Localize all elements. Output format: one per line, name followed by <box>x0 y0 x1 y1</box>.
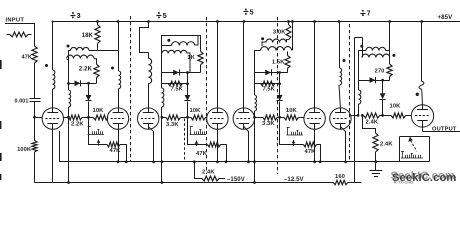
resistor 2.4K coupling <box>362 113 379 118</box>
label 2.4K coupling <box>366 120 379 126</box>
node chain stage1 left <box>67 116 70 119</box>
svg-text:0.001: 0.001 <box>15 98 29 104</box>
phasing dot T2 <box>167 39 170 42</box>
wire CR5 to chain <box>187 102 189 118</box>
node chain stage2 left <box>161 116 164 119</box>
diode CR2 vertical <box>85 95 91 101</box>
wire 7.5K row stage2 <box>162 83 188 85</box>
phasing dot pigtail <box>416 93 419 96</box>
resistor 10K stage1 <box>89 115 109 120</box>
node bus V4 plate tap <box>216 20 219 23</box>
label +85V supply <box>438 14 454 21</box>
resistor 10K stage2 <box>188 115 208 120</box>
wire CR7 to chain <box>279 102 281 118</box>
wire T2 right vertical <box>200 35 202 51</box>
wire 2.4K to -150V terminal <box>219 178 225 180</box>
diode CR3 <box>173 69 179 75</box>
resistor 2.4K shunt <box>373 133 378 152</box>
svg-text:18K: 18K <box>82 33 94 39</box>
wire 2.4K shunt to rail <box>375 152 377 162</box>
svg-text:100K: 100K <box>17 147 31 153</box>
resistor 47K stage1 leak <box>107 142 120 147</box>
inductor T3 secondary <box>255 47 293 51</box>
wire diode row stage1 <box>69 83 97 85</box>
node stage1 left bottom bus <box>67 181 70 184</box>
label 3.3K stage2 <box>166 122 179 128</box>
edge artifact 2 <box>0 121 1 129</box>
wire 1.5K to diode row stage3 <box>287 68 289 72</box>
wire V4 cathode to rail <box>217 129 219 162</box>
wire bus corner to V1 plate coil <box>52 22 54 71</box>
svg-text:270: 270 <box>375 68 385 74</box>
wire 7.5K row stage3 <box>255 83 280 85</box>
wire diode row stage2 <box>162 72 201 74</box>
inductor pigtail V8 plate <box>419 81 424 89</box>
label divide-by-5 second <box>243 7 253 16</box>
node 47K rail stage3 <box>319 160 322 163</box>
wire V6 cathode to rail <box>314 129 316 162</box>
tube V7 triode <box>330 108 351 129</box>
label 160 <box>335 174 345 180</box>
inductor L2 plate choke V2 <box>119 71 121 89</box>
node rail -150V tap <box>193 160 196 163</box>
node 2.4K rail <box>375 160 378 163</box>
node 47K rail stage2 <box>225 160 228 163</box>
wire L5 to V7 plate <box>339 85 340 108</box>
wire T4 outer left vertical to bus bottom <box>354 38 356 183</box>
resistor 270 <box>387 64 392 77</box>
wire T2 top line <box>162 35 201 37</box>
resistor 47K stage3 leak <box>304 142 317 147</box>
resistor 100K grid leak <box>32 141 37 153</box>
wire 270 to diode row <box>389 77 391 81</box>
wire V5 cathode to rail <box>244 127 249 162</box>
label 2.4K -150V <box>202 170 215 176</box>
label 10K stage2 <box>190 108 202 114</box>
diode CR7 vertical <box>277 95 283 101</box>
label 47K stage3 <box>305 149 317 155</box>
resistor 3.3K coupling stage2 <box>162 115 188 120</box>
wire diode row node down <box>88 83 90 95</box>
inductor L5 plate choke V7 <box>340 68 342 85</box>
node bus T3 tap <box>291 20 294 23</box>
inductor L1 plate choke V1 <box>53 70 55 89</box>
svg-text:3.0K: 3.0K <box>273 30 286 36</box>
phasing dot L2 <box>111 67 114 70</box>
wire diode row stage3 <box>255 72 288 74</box>
inductor L4 stage3 to chain <box>255 95 257 117</box>
resistor 7.5K stage3 <box>261 81 275 86</box>
label 2.2K coupling <box>71 121 84 127</box>
watermark SeekIC.com echo <box>391 170 455 182</box>
wire L2 to V2 plate <box>118 89 120 108</box>
label 7.5K stage3 <box>263 87 275 93</box>
wire stage3 left to rail and bus <box>254 117 256 182</box>
node bus V2 plate tap <box>117 20 120 23</box>
wire bus to V5 plate <box>243 22 245 108</box>
wire 100K to bottom bus <box>34 152 36 183</box>
label 7.5K stage2 <box>171 87 183 93</box>
wire stage2 left to rail and bus <box>161 117 163 182</box>
node bus V8 plate tap <box>420 20 423 23</box>
resistor 2.4K -150V <box>202 176 219 181</box>
tube V3 triode <box>138 108 159 129</box>
svg-text:1.5K: 1.5K <box>272 60 285 66</box>
phasing dot T1 primary <box>67 45 70 48</box>
wire jog to 2.4K shunt <box>363 116 376 134</box>
tube V2 triode <box>107 108 128 129</box>
svg-text:2.4K: 2.4K <box>380 142 393 148</box>
node bus left corner <box>52 21 54 23</box>
wire cathode rail <box>59 161 429 163</box>
node diode row stage3 <box>278 71 281 74</box>
node chain stage3 <box>278 116 281 119</box>
label divide-by-3 <box>70 11 80 20</box>
phasing dot T3 primary <box>261 37 264 40</box>
inductor T2 secondary <box>162 50 190 72</box>
node diode row stage1 left <box>67 82 70 85</box>
wire capacitor to grid node <box>35 102 43 118</box>
resistor 2.2K coupling <box>69 115 89 120</box>
wire T3 secondary right to bus <box>292 22 294 51</box>
svg-text:2.4K: 2.4K <box>202 170 215 176</box>
node 7.5K row stage2 <box>186 82 189 85</box>
svg-text:7: 7 <box>367 9 371 18</box>
svg-text:10K: 10K <box>190 108 202 114</box>
svg-text:47K: 47K <box>110 148 122 154</box>
tube V5 triode <box>233 108 254 129</box>
node T2 rail <box>161 160 164 163</box>
inductor T4 primary <box>358 47 390 50</box>
node V4 cathode rail <box>216 160 219 163</box>
node V5 cathode rail <box>247 160 250 163</box>
svg-text:10K: 10K <box>93 108 105 114</box>
node T3 bottom bus <box>253 181 256 184</box>
wire bus to V6 plate <box>314 22 316 108</box>
wire V7 cathode to rail <box>340 127 345 162</box>
resistor 160 in bus <box>333 180 347 184</box>
resistor 18K <box>95 22 100 44</box>
label -12.5V <box>284 177 304 183</box>
node grid V1 junction <box>33 116 36 119</box>
arrow waveform stage3 <box>292 140 296 146</box>
node bus V5 plate tap <box>243 20 246 23</box>
label 2.2K upper <box>79 67 93 73</box>
label divide-by-5 first <box>156 11 166 20</box>
arrow waveform stage1 <box>97 140 101 146</box>
svg-text:10K: 10K <box>390 104 402 110</box>
svg-text:5: 5 <box>163 11 167 20</box>
wire pigtail to V8 plate <box>421 89 424 104</box>
dashed separator stage boundary 4 <box>277 17 279 174</box>
wire bus after 160 <box>348 182 362 184</box>
node chain stage1 <box>87 116 90 119</box>
wire V1 to 2.2K coupling <box>64 117 69 119</box>
diode CR1 <box>75 80 81 86</box>
svg-text:3.3K: 3.3K <box>166 122 179 128</box>
node 7.5K row stage3 <box>278 82 281 85</box>
resistor 3.0K <box>286 22 291 40</box>
wire 2.2K to diode row <box>96 78 98 84</box>
tube V1 triode <box>42 108 63 129</box>
wire V8 cathode to output line <box>422 127 424 131</box>
label 47K stage1 <box>110 148 122 154</box>
wire cathode rail left stub <box>59 131 61 162</box>
wire bus to L2 <box>118 22 120 72</box>
svg-text:47K: 47K <box>196 151 208 157</box>
capacitor 0.001 coupling <box>30 99 41 102</box>
tube V8 output triode <box>411 105 433 127</box>
resistor 47K input grid <box>32 46 37 63</box>
label 10K stage1 <box>93 108 105 114</box>
inductor L3b stage2 to chain <box>162 88 164 117</box>
inductor T1 secondary <box>67 55 94 58</box>
dashed line stage2 waveform boundary <box>184 119 186 162</box>
label 0.001 <box>15 98 29 104</box>
resistor 7.5K stage2 <box>168 81 182 86</box>
label 1.5K <box>272 60 285 66</box>
svg-text:OUTPUT: OUTPUT <box>432 126 457 132</box>
svg-text:R-TX-dJdS: R-TX-dJdS <box>394 181 414 185</box>
wire secondary left down <box>254 50 256 95</box>
label 10K output <box>390 104 402 110</box>
svg-text:2.2K: 2.2K <box>79 67 93 73</box>
wire T4 left vertical <box>358 50 360 90</box>
inductor T2 primary <box>162 35 198 46</box>
label 3.3K stage3 <box>262 121 275 127</box>
wire output waveform box <box>400 137 430 162</box>
label 18K <box>82 33 94 39</box>
phasing dot L5 <box>343 59 346 62</box>
node 47K rail stage1 <box>125 160 128 163</box>
node bus V7 plate tap <box>338 20 341 23</box>
diode CR6 <box>265 69 271 75</box>
node V7 cathode rail <box>344 160 347 163</box>
wire chain node to 47K stage2 <box>188 118 208 145</box>
wire -150V branch <box>195 162 203 179</box>
node chain stage3 left <box>253 116 256 119</box>
node V2 cathode rail <box>117 160 120 163</box>
resistor 2.2K discriminator <box>94 64 99 77</box>
node chain jog tap <box>361 114 364 117</box>
wire chain node to 47K <box>89 118 108 145</box>
wire chain node to 47K stage3 <box>280 118 304 145</box>
resistor 47K stage2 leak <box>208 142 221 147</box>
inductor T1 primary <box>70 47 97 50</box>
inductor T4 secondary <box>362 54 390 57</box>
label 10K stage3 <box>286 108 298 114</box>
svg-text:160: 160 <box>335 174 345 180</box>
wire CR10 to chain <box>382 100 384 116</box>
svg-text:INPUT: INPUT <box>6 17 25 23</box>
wire node to CR10 <box>382 80 384 93</box>
tube V4 triode <box>207 108 228 129</box>
wire 18K bottom jog <box>97 44 99 51</box>
wire bus bracket stage2 <box>140 22 149 53</box>
edge artifact 1 <box>0 60 2 69</box>
wire V1 cathode to bottom bus <box>52 129 54 182</box>
node V6 cathode rail <box>313 160 316 163</box>
resistor 10K stage3 <box>280 115 304 120</box>
tube V6 triode <box>304 108 325 129</box>
node bus 270 tap <box>388 20 391 23</box>
wire grid node to 100K <box>34 117 36 140</box>
label divide-by-7 <box>360 9 370 18</box>
wire V7 to chain <box>351 115 358 117</box>
watermark small code <box>394 181 414 185</box>
wire 47K to capacitor <box>34 63 36 98</box>
node bus stage2 tap <box>147 20 150 23</box>
wire T1 secondary right to 2.2K <box>94 59 97 65</box>
svg-text:+85V: +85V <box>438 14 454 21</box>
node diode row stage1 <box>87 82 90 85</box>
inductor T3 primary <box>262 39 286 46</box>
label 1K <box>187 55 195 61</box>
svg-text:–150V: –150V <box>227 177 245 183</box>
wire diode row stage4 <box>358 80 390 82</box>
phasing dot T4 right <box>392 54 395 57</box>
wire top B+ bus <box>53 21 460 23</box>
wire output line <box>423 131 460 133</box>
wire bottom bus <box>35 182 334 184</box>
svg-text:47K: 47K <box>305 149 317 155</box>
wire stage1 left vertical to bottom bus <box>68 117 70 182</box>
wire V2 cathode to rail <box>118 129 120 162</box>
dashed separator stage boundary 2 <box>130 16 132 161</box>
arrow waveform stage2 <box>195 141 199 147</box>
node T3 rail <box>253 160 256 163</box>
waveform sketch stage2 <box>190 127 207 135</box>
wire V3 cathode to rail <box>148 127 153 162</box>
resistor 1.5K <box>285 52 290 69</box>
node T2 bottom bus <box>161 181 164 184</box>
wire bracket to L3 <box>148 53 150 59</box>
phasing dot T4 <box>360 45 363 48</box>
svg-text:3: 3 <box>77 11 81 20</box>
wire 47K to rail stage1 <box>120 145 127 162</box>
node bus 18K tap <box>96 20 99 23</box>
label OUTPUT <box>432 126 457 132</box>
label 47K input <box>21 55 32 61</box>
resistor input series <box>7 32 32 37</box>
label 100K <box>17 147 31 153</box>
resistor 10K output <box>391 113 411 118</box>
dashed separator stage boundary 3 <box>206 17 208 174</box>
phasing dot L1 <box>45 64 48 67</box>
inductor L6 to chain node <box>359 90 361 115</box>
node diode row stage4 <box>381 79 384 82</box>
wire CR7 drop <box>279 73 281 96</box>
wire bus to 270 <box>389 22 391 65</box>
svg-text:–12.5V: –12.5V <box>284 177 304 183</box>
label 47K stage2 <box>196 151 208 157</box>
wire input terminal lead <box>5 24 35 47</box>
edge artifact 3 <box>0 153 2 161</box>
svg-text:10K: 10K <box>286 108 298 114</box>
wire L3 to V3 plate <box>148 84 150 108</box>
wire 47K to rail stage3 <box>317 145 321 162</box>
node chain stage4 left <box>357 114 360 117</box>
waveform sketch output <box>401 151 423 158</box>
waveform sketch stage1 <box>88 127 105 135</box>
node bus 3.0K tap <box>287 20 290 23</box>
svg-text:47K: 47K <box>21 55 32 61</box>
edge artifact 4 <box>0 174 1 180</box>
svg-text:7.5K: 7.5K <box>263 87 275 93</box>
wire L1 to V1 plate <box>52 89 54 108</box>
wire bus to V8 pigtail <box>421 22 423 82</box>
resistor 1K <box>198 51 203 65</box>
node chain stage2 <box>186 116 189 119</box>
svg-text:7.5K: 7.5K <box>171 87 183 93</box>
wire 1K to diode row <box>200 65 202 73</box>
node bus V6 plate tap <box>313 20 316 23</box>
arrow waveform output dashed <box>408 137 417 152</box>
wire 47K to rail stage2 <box>221 145 227 162</box>
node chain stage4 <box>381 114 384 117</box>
watermark SeekIC.com <box>392 172 456 184</box>
label -150V <box>227 177 245 183</box>
diode CR8 <box>370 77 376 83</box>
wire T2 left vertical <box>161 35 163 88</box>
wire T1 left vertical <box>67 51 71 84</box>
svg-text:5: 5 <box>250 7 254 16</box>
ground symbol <box>370 162 383 177</box>
wire 3.0K to T3 primary <box>287 40 289 42</box>
inductor L3 plate choke V3 <box>149 58 152 83</box>
node V3 cathode rail <box>152 160 155 163</box>
svg-text:1K: 1K <box>187 55 195 61</box>
wire CR2 to chain node <box>88 102 90 118</box>
wire bus to L5 <box>339 22 341 69</box>
node diode row stage2 <box>186 71 189 74</box>
dashed separator stage boundary 5 <box>349 24 351 161</box>
svg-text:3.3K: 3.3K <box>262 121 275 127</box>
wire chain to 10K output <box>380 115 392 117</box>
label INPUT <box>6 17 25 23</box>
wire bus to V4 plate <box>217 22 219 108</box>
waveform sketch stage3 <box>287 127 304 135</box>
label 2.4K shunt <box>380 142 393 148</box>
wire T1 primary to plate line V2 <box>98 50 119 52</box>
inductor L1b stage1 to chain <box>69 83 71 117</box>
label 270 <box>375 68 385 74</box>
wire CR5 drop <box>187 73 189 96</box>
label 3.0K <box>273 30 286 36</box>
wire T4 top bracket <box>355 38 363 58</box>
svg-text:2.2K: 2.2K <box>71 121 84 127</box>
diode CR5 vertical <box>184 95 190 101</box>
svg-text:2.4K: 2.4K <box>366 120 379 126</box>
diode CR10 vertical <box>380 93 386 99</box>
resistor 3.3K coupling stage3 <box>255 115 280 120</box>
